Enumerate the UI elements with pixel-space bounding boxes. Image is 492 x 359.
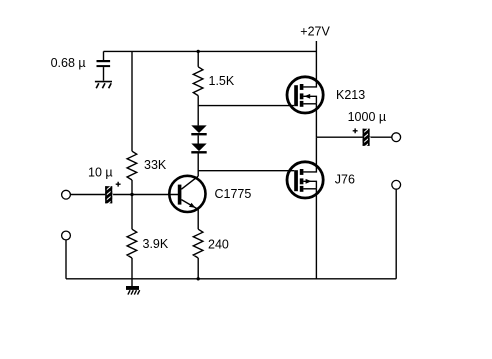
svg-text:240: 240 [208,238,229,252]
svg-text:C1775: C1775 [215,187,252,201]
svg-text:+27V: +27V [300,25,330,39]
svg-text:0.68 µ: 0.68 µ [51,56,86,70]
svg-text:3.9K: 3.9K [143,237,169,251]
svg-text:33K: 33K [144,158,167,172]
svg-text:K213: K213 [336,88,365,102]
svg-text:10 µ: 10 µ [88,166,113,180]
svg-text:1.5K: 1.5K [209,74,235,88]
svg-text:J76: J76 [335,173,355,187]
svg-text:1000 µ: 1000 µ [348,110,386,124]
